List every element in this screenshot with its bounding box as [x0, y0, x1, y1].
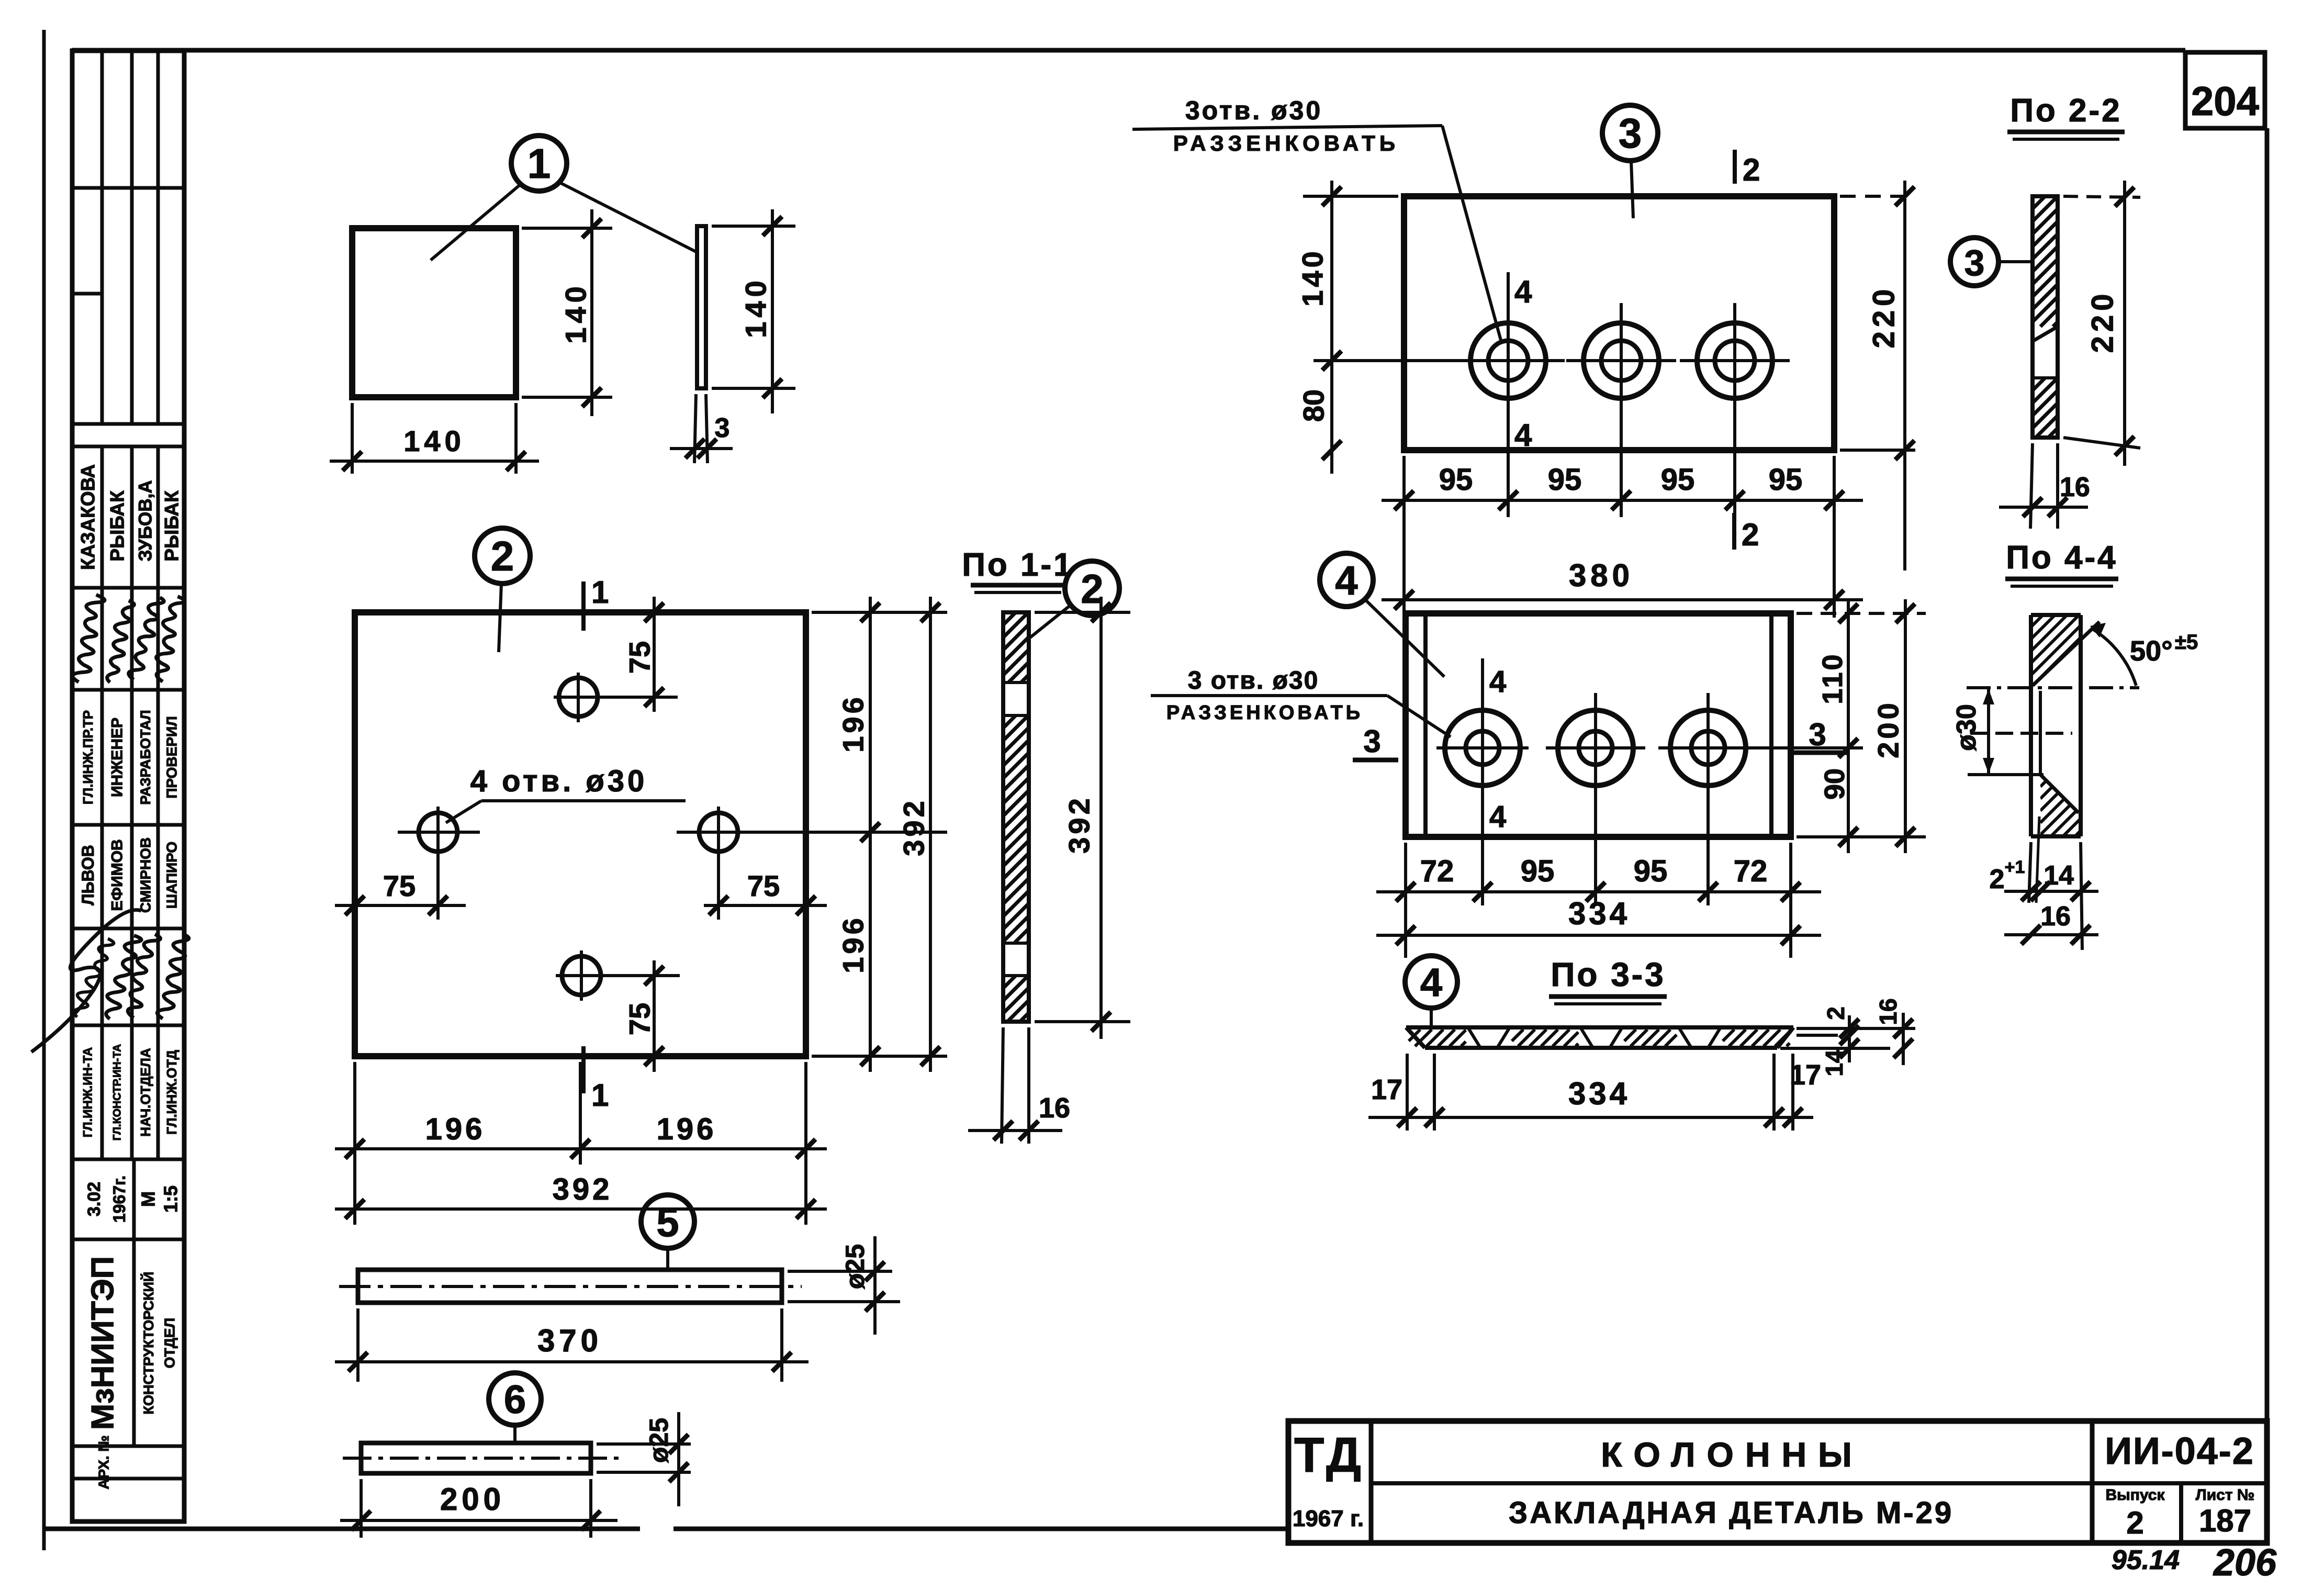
detail 4 hole 2	[1558, 710, 1633, 786]
detail 3 hole 3	[1697, 323, 1772, 398]
svg-text:ШАПИРО: ШАПИРО	[164, 842, 180, 909]
detail 4 left chamfer line	[1423, 613, 1428, 837]
title block divider TD cell	[1369, 1421, 1374, 1543]
svg-text:1967г.: 1967г.	[110, 1176, 129, 1223]
svg-text:4: 4	[1420, 960, 1442, 1005]
detail 4 hole 3	[1670, 710, 1746, 786]
svg-text:РАЗЗЕНКОВАТЬ: РАЗЗЕНКОВАТЬ	[1173, 131, 1399, 155]
svg-text:2: 2	[2126, 1505, 2143, 1540]
svg-text:По 1-1: По 1-1	[962, 547, 1073, 583]
svg-text:95: 95	[1548, 463, 1582, 497]
detail 2 bottom dim 196/196	[335, 1147, 827, 1150]
detail 2 dim 75 left hole	[335, 904, 466, 907]
detail 3 bottom dim 95x4	[1382, 499, 1863, 502]
frame bottom border segment left	[44, 1527, 640, 1531]
svg-text:ø25: ø25	[840, 1244, 870, 1289]
svg-text:ø25: ø25	[644, 1418, 673, 1463]
svg-text:140: 140	[1296, 248, 1329, 306]
detail 5 dia 25 extension lines	[788, 1270, 892, 1273]
section 3-3 countersink gap edges	[1468, 1027, 1480, 1048]
detail 3 hole 1	[1470, 323, 1546, 398]
svg-text:4: 4	[1489, 800, 1506, 834]
label leader detail 4	[1151, 694, 1387, 697]
svg-text:140: 140	[559, 282, 592, 343]
section 1-1 dim 392 extension lines	[1035, 611, 1130, 614]
svg-text:370: 370	[537, 1323, 602, 1358]
balloon 3 section	[1950, 238, 1999, 286]
balloon 1	[511, 136, 567, 191]
section 3-3 dim 2 and 14	[1848, 1015, 1851, 1062]
svg-text:1: 1	[527, 140, 551, 187]
section 4-4 dim 2+1 and 14	[2004, 890, 2098, 893]
svg-text:АРХ. №: АРХ. №	[96, 1435, 112, 1489]
svg-text:16: 16	[2060, 472, 2090, 502]
svg-text:По 2-2: По 2-2	[2010, 93, 2121, 129]
svg-text:110: 110	[1817, 652, 1848, 704]
detail 3 right dim 220	[1903, 181, 1906, 570]
svg-text:17: 17	[1371, 1074, 1402, 1105]
svg-text:КОЛОННЫ: КОЛОННЫ	[1601, 1435, 1863, 1474]
detail 4 right dim 200	[1904, 599, 1907, 853]
balloon 2 section	[1065, 561, 1119, 616]
svg-text:4: 4	[1489, 665, 1506, 699]
section 1-1 dim 392	[1099, 597, 1103, 1039]
title block divider right section	[2090, 1421, 2095, 1543]
section 4-4 left face	[2029, 615, 2033, 836]
svg-text:РЫБАК: РЫБАК	[161, 490, 183, 562]
svg-text:14: 14	[2044, 860, 2074, 891]
frame top border	[72, 48, 2185, 53]
svg-text:4: 4	[1335, 557, 1357, 603]
svg-text:+1: +1	[2005, 857, 2025, 877]
section 4-4 countersink chamfer	[2033, 622, 2100, 686]
svg-text:75: 75	[747, 869, 780, 902]
section 4-4 lower chamfer	[2040, 775, 2079, 813]
svg-text:17: 17	[1790, 1059, 1821, 1091]
svg-text:196: 196	[837, 694, 870, 752]
svg-text:ГЛ.ИНЖ.ПР.ТР: ГЛ.ИНЖ.ПР.ТР	[80, 710, 96, 804]
svg-text:ТД: ТД	[1294, 1427, 1364, 1482]
detail 1 side view dim 140	[771, 209, 774, 413]
svg-text:2: 2	[1822, 1006, 1849, 1020]
svg-text:ГЛ.ИНЖ.ОТД: ГЛ.ИНЖ.ОТД	[164, 1050, 179, 1135]
section 3-3 top edge	[1406, 1025, 1793, 1030]
svg-text:187: 187	[2199, 1503, 2251, 1538]
svg-text:КОНСТРУКТОРСКИЙ: КОНСТРУКТОРСКИЙ	[140, 1272, 156, 1415]
svg-text:ЛЬВОВ: ЛЬВОВ	[78, 845, 97, 905]
detail 2 right dims extension lines	[812, 611, 947, 614]
detail 6 dim 200	[340, 1519, 618, 1522]
section 3-3 bottom dims extension lines	[1406, 1054, 1409, 1131]
section 3-3 right dims extension lines	[1797, 1027, 1915, 1030]
detail 2 hole bottom	[562, 956, 601, 995]
stamp strip column line x195 upper	[100, 51, 104, 424]
svg-text:50°: 50°	[2130, 635, 2173, 667]
section 2-2 dim 220	[2123, 181, 2126, 466]
detail 2 hole top	[559, 678, 598, 717]
svg-text:392: 392	[1063, 795, 1096, 853]
svg-text:16: 16	[2040, 901, 2071, 932]
section 4-4 lower hatching	[2040, 775, 2081, 836]
section 2-2 hatching	[2033, 196, 2045, 209]
section 2-2 dim 16	[1999, 506, 2088, 509]
balloon 2	[475, 528, 530, 584]
frame bottom border segment right	[673, 1527, 1288, 1531]
svg-text:4: 4	[1514, 274, 1532, 309]
svg-text:2: 2	[1990, 864, 2005, 894]
label leader detail 3	[1132, 126, 1442, 129]
svg-text:1: 1	[591, 1078, 609, 1113]
svg-text:РАЗЗЕНКОВАТЬ: РАЗЗЕНКОВАТЬ	[1166, 702, 1363, 724]
svg-text:ГЛ.ИНЖ.ИН-ТА: ГЛ.ИНЖ.ИН-ТА	[81, 1047, 95, 1138]
svg-text:200: 200	[1872, 700, 1905, 758]
section mark 1 top	[581, 581, 586, 631]
balloon 5 leader	[666, 1248, 669, 1271]
title block outer box	[1288, 1421, 2267, 1543]
svg-text:1967 г.: 1967 г.	[1293, 1506, 1364, 1531]
section 2-2 countersink edges	[2033, 327, 2058, 341]
detail 2 hole left	[419, 813, 457, 852]
detail 2 dim 75 right hole	[704, 904, 827, 907]
frame right border	[2265, 128, 2270, 1544]
detail 4 hole 1	[1445, 710, 1520, 786]
svg-text:204: 204	[2191, 78, 2259, 124]
svg-text:3 отв. ø30: 3 отв. ø30	[1188, 667, 1319, 695]
detail 4 right dim 110/90	[1847, 599, 1850, 853]
svg-text:220: 220	[1867, 285, 1901, 349]
detail 2 right dim 392	[929, 597, 932, 1072]
balloon 5	[641, 1195, 694, 1248]
svg-text:95: 95	[1661, 463, 1695, 497]
title block divider vypusk/list	[2179, 1483, 2183, 1543]
svg-text:Выпуск: Выпуск	[2105, 1486, 2165, 1504]
detail 4 right chamfer line	[1769, 613, 1773, 837]
section mark 1 bottom	[581, 1046, 586, 1093]
balloon 2 section leader	[1029, 605, 1071, 639]
detail 6 dim 200 extension lines	[360, 1479, 363, 1538]
svg-text:3отв. ø30: 3отв. ø30	[1185, 96, 1322, 125]
balloon 3	[1602, 105, 1658, 161]
svg-text:РАЗРАБОТАЛ: РАЗРАБОТАЛ	[138, 710, 153, 804]
svg-text:196: 196	[657, 1112, 717, 1146]
detail 3 plate face view	[1404, 196, 1834, 450]
svg-text:380: 380	[1569, 558, 1634, 593]
detail 3 bottom dim 380	[1382, 598, 1863, 601]
svg-text:16: 16	[1039, 1092, 1070, 1124]
svg-text:334: 334	[1568, 1076, 1630, 1111]
svg-text:2: 2	[1742, 517, 1759, 552]
detail 1 right dim 140 extension lines	[522, 227, 612, 230]
svg-text:80: 80	[1297, 389, 1330, 422]
detail 1 side view thin plate	[697, 226, 706, 388]
svg-text:206: 206	[2213, 1542, 2277, 1584]
svg-text:4 отв. ø30: 4 отв. ø30	[470, 764, 648, 798]
section 2-2 bar outline	[2033, 196, 2058, 438]
section 4-4 centerline	[1967, 686, 2139, 689]
stamp strip column line x302 upper	[156, 51, 160, 424]
svg-text:95.14: 95.14	[2112, 1545, 2180, 1575]
svg-text:14: 14	[1821, 1049, 1848, 1077]
svg-text:6: 6	[504, 1378, 526, 1422]
stamp strip row lines	[72, 186, 184, 190]
svg-text:М: М	[138, 1191, 159, 1207]
balloon 6 leader	[513, 1425, 517, 1444]
svg-text:196: 196	[425, 1112, 486, 1146]
svg-text:95: 95	[1769, 463, 1803, 497]
balloon 4 leader	[1365, 599, 1444, 677]
svg-text:3: 3	[1363, 724, 1380, 759]
svg-text:НАЧ.ОТДЕЛА: НАЧ.ОТДЕЛА	[138, 1048, 153, 1137]
svg-text:4: 4	[1514, 418, 1532, 453]
svg-text:±5: ±5	[2175, 631, 2198, 654]
stamp strip col1 extra divider	[72, 292, 102, 296]
balloon 4 section leader	[1430, 1008, 1433, 1025]
detail 6 dim dia25	[677, 1412, 680, 1506]
detail 2 bottom dims extension lines	[353, 1062, 356, 1225]
detail 3 right dim extension lines	[1840, 195, 1915, 198]
section 1-1 dim 16	[968, 1129, 1062, 1132]
detail 1 right dim 140	[590, 209, 593, 416]
section 4-4 bottom edge	[2031, 834, 2081, 838]
section mark 2 bottom	[1732, 513, 1736, 550]
svg-text:Лист №: Лист №	[2196, 1486, 2255, 1504]
detail 2 hole right	[699, 813, 738, 852]
detail 5 dim 370	[335, 1360, 809, 1363]
stamp strip outer box	[72, 51, 184, 1521]
detail 5 dim 370 extension lines	[356, 1308, 360, 1382]
svg-text:2: 2	[1743, 152, 1760, 187]
detail 6 rod	[361, 1443, 591, 1473]
detail 1 thickness dim 3 extension lines	[694, 394, 696, 463]
svg-text:ø30: ø30	[1951, 704, 1982, 751]
svg-text:3.02: 3.02	[84, 1182, 104, 1216]
svg-text:1:5: 1:5	[160, 1185, 182, 1213]
section 3-3 bottom dim 17/334/17	[1368, 1116, 1813, 1119]
svg-text:РЫБАК: РЫБАК	[107, 490, 128, 562]
svg-text:2: 2	[491, 533, 514, 579]
svg-text:МзНИИТЭП: МзНИИТЭП	[85, 1256, 120, 1430]
detail 4 bottom dims extension lines	[1404, 843, 1407, 958]
svg-text:ЗУБОВ,А: ЗУБОВ,А	[136, 480, 156, 561]
section 4-4 dia30 dim	[1987, 688, 1990, 775]
detail 4 right dims extension lines	[1797, 612, 1926, 615]
detail 2 right dim 196/196	[869, 597, 872, 1072]
detail 6 dia 25 extension lines	[597, 1442, 691, 1446]
section 4-4 hole wall	[2039, 691, 2042, 775]
section 3-3 hatching	[1409, 1030, 1420, 1041]
detail 5 dim dia25	[873, 1236, 877, 1335]
svg-text:ИНЖЕНЕР: ИНЖЕНЕР	[109, 718, 126, 797]
section 1-1 dim 16 extension lines	[1002, 1027, 1003, 1144]
section 2-2 dim 16 extension lines	[2030, 443, 2033, 529]
stamp strip column line x256 lower	[132, 1159, 136, 1446]
section 1-1 hatching	[1003, 612, 1016, 625]
balloon 3 leader	[1631, 161, 1633, 218]
balloon 3 section leader	[1999, 260, 2033, 263]
svg-text:95: 95	[1634, 854, 1668, 888]
section 4-4 angle arc 50	[2093, 629, 2136, 686]
svg-text:ОТДЕЛ: ОТДЕЛ	[162, 1318, 178, 1368]
svg-text:По 4-4: По 4-4	[2006, 540, 2117, 576]
svg-text:ЕФИМОВ: ЕФИМОВ	[109, 839, 126, 911]
detail 1 bottom dim 140	[330, 460, 539, 463]
detail 4 bottom dim 334	[1376, 934, 1821, 937]
section 1-1 hole gap edges	[1003, 681, 1029, 684]
page number box 204	[2185, 52, 2265, 128]
balloon 2 leader	[499, 584, 501, 652]
svg-text:72: 72	[1734, 854, 1768, 888]
detail 4 plate face view	[1406, 613, 1791, 837]
stamp signature row 1	[71, 594, 106, 684]
detail 2 bottom dim 392	[335, 1207, 827, 1211]
section mark 2 top	[1733, 150, 1737, 184]
svg-text:392: 392	[553, 1172, 613, 1206]
detail 5 rod	[358, 1270, 782, 1303]
section 4-4 top hatching	[2031, 615, 2081, 686]
detail 6 rod centerline	[343, 1457, 620, 1460]
section 4-4 bottom dims extension lines	[2029, 842, 2031, 903]
section 1-1 bar outline	[1003, 612, 1029, 1022]
svg-text:По 3-3: По 3-3	[1551, 956, 1665, 993]
section 3-3 dim 16	[1902, 1013, 1905, 1065]
detail 3 bottom dims extension lines	[1402, 456, 1406, 618]
balloon 4 section	[1405, 956, 1457, 1008]
section 3-3 right chamfer	[1777, 1027, 1793, 1048]
svg-text:1: 1	[591, 575, 609, 610]
svg-text:196: 196	[837, 915, 870, 973]
detail 1 square plate face view	[352, 228, 516, 397]
detail 2 plate face view	[355, 612, 806, 1056]
svg-text:95: 95	[1439, 463, 1473, 497]
svg-text:200: 200	[440, 1482, 505, 1517]
balloon 4	[1320, 553, 1373, 607]
balloon 6	[489, 1373, 541, 1425]
svg-text:334: 334	[1568, 896, 1630, 931]
detail 5 rod centerline	[339, 1285, 802, 1288]
svg-text:СМИРНОВ: СМИРНОВ	[138, 837, 154, 913]
detail 3 left dim extension lines	[1303, 195, 1398, 198]
stamp signature row 2	[72, 935, 115, 1021]
left paper margin line	[42, 30, 46, 1550]
section 3-3 bottom edge	[1425, 1046, 1777, 1050]
svg-text:ЗАКЛАДНАЯ ДЕТАЛЬ М-29: ЗАКЛАДНАЯ ДЕТАЛЬ М-29	[1509, 1496, 1953, 1530]
detail 3 left dim 140/80	[1330, 181, 1333, 474]
section 4-4 dim 16	[2004, 933, 2098, 936]
svg-text:3: 3	[1964, 242, 1985, 283]
section 4-4 right face	[2079, 615, 2083, 836]
balloon 1 leader left	[431, 184, 521, 260]
svg-text:75: 75	[623, 1003, 656, 1035]
svg-text:90: 90	[1819, 768, 1850, 800]
svg-text:75: 75	[623, 641, 656, 674]
section 2-2 dim 220 extension lines	[2063, 196, 2140, 197]
svg-text:5: 5	[656, 1199, 679, 1245]
stamp strip column line x252 upper	[130, 51, 134, 424]
section 3-3 left chamfer	[1406, 1027, 1425, 1048]
detail 1 bottom dim 140 extension lines	[351, 403, 354, 474]
svg-text:3: 3	[1619, 110, 1642, 156]
balloon 1 leader right	[559, 182, 696, 252]
detail 1 thickness dim 3	[670, 447, 733, 450]
svg-text:ГЛ.КОНСТР.ИН-ТА: ГЛ.КОНСТР.ИН-ТА	[111, 1044, 124, 1140]
detail 3 hole 2	[1584, 323, 1659, 398]
detail 2 dim 75 top hole	[653, 597, 656, 712]
svg-text:72: 72	[1420, 854, 1454, 888]
stamp big flourish	[31, 910, 141, 1052]
svg-text:140: 140	[403, 424, 465, 457]
svg-text:ПРОВЕРИЛ: ПРОВЕРИЛ	[164, 716, 180, 799]
svg-text:392: 392	[897, 798, 930, 856]
detail 4 bottom dim 72/95/95/72	[1376, 890, 1821, 893]
svg-text:220: 220	[2086, 290, 2120, 353]
detail 2 dim 75 bottom hole	[653, 960, 656, 1072]
svg-text:95: 95	[1521, 854, 1555, 888]
section 4-4 hole centerline	[1970, 732, 2072, 735]
svg-text:16: 16	[1874, 998, 1902, 1025]
svg-text:КАЗАКОВА: КАЗАКОВА	[77, 464, 99, 570]
title block horizontal divider	[1371, 1481, 2267, 1485]
svg-text:75: 75	[383, 869, 416, 902]
section 4-4 top edge	[2031, 613, 2081, 617]
svg-text:3: 3	[715, 413, 730, 443]
svg-text:ИИ-04-2: ИИ-04-2	[2105, 1430, 2254, 1472]
detail 1 side view dim 140 extension lines	[712, 225, 795, 228]
svg-text:140: 140	[739, 276, 772, 338]
